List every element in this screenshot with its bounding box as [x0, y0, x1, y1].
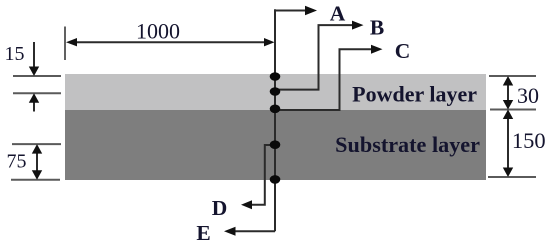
svg-text:30: 30 [517, 83, 539, 108]
dimension 30 extension top line [489, 75, 536, 77]
svg-text:E: E [196, 221, 210, 245]
dimension 150 bottom extension line [488, 176, 536, 178]
dimension 30/150 middle extension line [490, 109, 536, 111]
svg-text:A: A [330, 1, 346, 25]
svg-text:1000: 1000 [136, 18, 180, 43]
svg-text:75: 75 [7, 151, 27, 173]
dimension 1000 left tick [64, 27, 66, 61]
dimension 15 extension line lower [13, 92, 61, 94]
svg-text:Powder layer: Powder layer [352, 82, 477, 107]
node dot 5 [270, 175, 281, 184]
dimension 15 up arrow [29, 93, 39, 111]
dimension 15 down arrow [29, 42, 39, 76]
node dot 3 [270, 105, 281, 114]
node dot 1 [270, 72, 281, 81]
svg-text:B: B [370, 16, 384, 40]
arrow C wire [275, 45, 383, 110]
svg-text:Substrate layer: Substrate layer [335, 132, 480, 157]
node dot 2 [270, 87, 281, 96]
dimension 1000 line [66, 38, 275, 46]
svg-text:15: 15 [5, 43, 25, 65]
substrate layer [65, 110, 486, 180]
dimension 75 double arrow [32, 144, 42, 180]
dimension 15 extension line upper [13, 75, 61, 77]
dimension 75 extension line lower [11, 179, 60, 181]
node dot 4 [270, 140, 281, 149]
arrow A wire [275, 6, 317, 15]
svg-text:C: C [395, 39, 411, 63]
dimension 150 double arrow [503, 110, 513, 178]
dimension 75 extension line upper [12, 143, 61, 145]
powder layer [65, 74, 486, 110]
arrow B wire [275, 21, 364, 90]
arrow D wire [241, 145, 275, 209]
dimension 30 double arrow [503, 76, 513, 110]
svg-text:D: D [212, 196, 228, 220]
svg-text:150: 150 [512, 128, 546, 153]
arrow E wire [224, 227, 275, 236]
main vertical wire [274, 9, 276, 231]
